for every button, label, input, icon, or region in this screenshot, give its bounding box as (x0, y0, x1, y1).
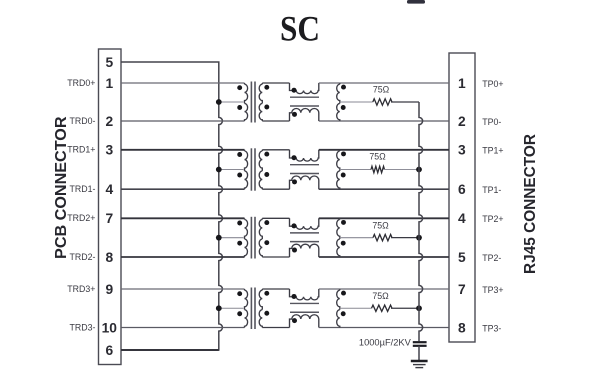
polarity dot T4 primary lower (237, 311, 242, 316)
wire TRD2- pin to transformer T3 (121, 256, 245, 258)
wire secondary top to choke L3 (262, 217, 289, 219)
autotransformer winding channel 0 (337, 83, 340, 121)
polarity dot autotransformer 0 upper (341, 85, 346, 90)
wire choke L2 to RJ45 pin (bottom) (319, 188, 449, 190)
wire TRD3- pin to transformer T4 (121, 327, 245, 329)
svg-text:5: 5 (105, 55, 113, 70)
junction resistor R4 on right bus (416, 305, 422, 311)
polarity dot T1 primary upper (237, 85, 242, 90)
polarity dot choke L3 bottom (292, 248, 297, 253)
choke L1 core (290, 96, 319, 98)
svg-text:TRD1+: TRD1+ (67, 145, 95, 155)
polarity dot T3 primary lower (237, 241, 242, 246)
junction center tap T1 on left bus (216, 99, 222, 105)
wire secondary top to choke L1 (262, 82, 289, 84)
svg-text:TRD3-: TRD3- (69, 322, 95, 332)
transformer T3 secondary winding (259, 218, 262, 257)
polarity dot T1 secondary upper (264, 85, 269, 90)
wire autotransformer center tap to resistor R1 (340, 101, 373, 103)
capacitor C1 1000uF/2KV plate top (413, 341, 427, 343)
svg-text:TRD0-: TRD0- (69, 116, 95, 126)
wire choke L3 to RJ45 pin (top) (319, 217, 449, 219)
PCB connector J1 body (99, 49, 122, 365)
transformer T2 secondary winding (259, 150, 262, 189)
polarity dot choke L2 bottom (292, 179, 297, 184)
svg-text:TP1-: TP1- (482, 185, 501, 195)
svg-text:RJ45 CONNECTOR: RJ45 CONNECTOR (522, 134, 539, 274)
common-mode choke L3 bottom winding (290, 244, 319, 257)
transformer T1 core (250, 82, 252, 123)
svg-text:6: 6 (458, 182, 466, 197)
polarity dot T2 primary upper (237, 152, 242, 157)
wire pin6 (left, bottom return) (121, 349, 219, 351)
polarity dot autotransformer 1 upper (341, 151, 346, 156)
transformer T4 secondary winding (259, 289, 262, 328)
wire primary center tap T4 (219, 307, 244, 309)
autotransformer winding channel 2 (337, 218, 340, 257)
wire resistor R2 to right bus (384, 169, 420, 171)
svg-text:TRD2-: TRD2- (69, 252, 95, 262)
svg-text:3: 3 (105, 143, 113, 158)
svg-text:TP3+: TP3+ (482, 285, 503, 295)
common-mode choke L2 bottom winding (290, 176, 319, 189)
transformer T4 core (250, 288, 252, 330)
wire autotransformer center tap to resistor R4 (340, 307, 372, 309)
svg-text:TRD0+: TRD0+ (67, 78, 95, 88)
wire TRD1- pin to transformer T2 (121, 188, 245, 190)
svg-text:1: 1 (105, 76, 113, 91)
svg-text:7: 7 (458, 282, 466, 297)
polarity dot autotransformer 1 lower (341, 173, 346, 178)
wire choke L1 to RJ45 pin (top) (319, 82, 449, 84)
svg-text:PCB CONNECTOR: PCB CONNECTOR (53, 116, 70, 259)
junction center tap T3 on left bus (216, 235, 222, 241)
polarity dot autotransformer 2 lower (341, 241, 346, 246)
polarity dot choke L1 top (292, 88, 297, 93)
svg-text:75Ω: 75Ω (372, 220, 389, 230)
junction center tap T4 on left bus (216, 305, 222, 311)
svg-text:4: 4 (458, 211, 466, 226)
polarity dot choke L2 top (292, 155, 297, 160)
wire choke L3 to RJ45 pin (bottom) (319, 256, 449, 258)
svg-text:TP3-: TP3- (482, 323, 501, 333)
autotransformer winding channel 3 (337, 289, 340, 328)
svg-text:2: 2 (105, 114, 113, 129)
wire secondary bottom to choke L1 (262, 120, 289, 122)
page artifact mark top (407, 0, 425, 4)
resistor R3 75 ohm (373, 234, 392, 240)
transformer T2 core (250, 148, 252, 190)
wire choke L2 to RJ45 pin (top) (319, 149, 449, 151)
svg-text:75Ω: 75Ω (373, 85, 390, 95)
wire resistor R4 to right bus (391, 307, 419, 309)
svg-text:TRD2+: TRD2+ (67, 213, 95, 223)
svg-text:10: 10 (102, 320, 118, 335)
common-mode choke L4 bottom winding (290, 315, 319, 328)
svg-text:75Ω: 75Ω (369, 151, 386, 161)
polarity dot choke L3 top (292, 223, 297, 228)
svg-text:TP0-: TP0- (482, 117, 501, 127)
svg-text:TP0+: TP0+ (482, 79, 503, 89)
svg-text:8: 8 (105, 250, 113, 265)
wire primary center tap T2 (219, 169, 244, 171)
wire choke L4 to RJ45 pin (bottom) (319, 327, 449, 329)
wire autotransformer center tap to resistor R3 (340, 237, 373, 239)
svg-text:75Ω: 75Ω (372, 291, 389, 301)
svg-text:TP2+: TP2+ (482, 214, 503, 224)
wire primary center tap T3 (219, 237, 244, 239)
svg-text:9: 9 (105, 282, 113, 297)
choke L2 core (290, 164, 319, 166)
svg-text:3: 3 (458, 143, 466, 158)
wire secondary bottom to choke L4 (262, 327, 289, 329)
wire TRD0- pin to transformer T1 (121, 120, 245, 122)
polarity dot T3 primary upper (237, 221, 242, 226)
ground symbol (411, 360, 428, 362)
svg-text:TRD1-: TRD1- (69, 184, 95, 194)
polarity dot T2 secondary lower (264, 172, 269, 177)
wire secondary top to choke L4 (262, 288, 289, 290)
wire capacitor to ground (418, 346, 420, 360)
common-mode choke L1 bottom winding (290, 109, 319, 122)
svg-text:TP1+: TP1+ (482, 146, 503, 156)
wire pin5 / center-tap bus (left) (121, 62, 222, 350)
svg-text:2: 2 (458, 114, 466, 129)
polarity dot T4 secondary upper (264, 291, 269, 296)
wire secondary top to choke L2 (262, 149, 289, 151)
transformer T3 primary winding (245, 218, 248, 257)
polarity dot T4 secondary lower (264, 311, 269, 316)
polarity dot autotransformer 3 lower (341, 311, 346, 316)
svg-text:TRD3+: TRD3+ (67, 284, 95, 294)
termination bus wire (right, to capacitor) (419, 102, 423, 341)
svg-text:4: 4 (105, 182, 113, 197)
resistor R2 75 ohm (371, 166, 384, 172)
choke L4 core (290, 302, 319, 304)
polarity dot T3 secondary lower (264, 240, 269, 245)
wire resistor R1 to right bus (391, 101, 419, 103)
svg-text:1000µF/2KV: 1000µF/2KV (359, 338, 412, 348)
wire TRD1+ pin to transformer T2 (121, 149, 245, 151)
polarity dot T2 secondary upper (264, 152, 269, 157)
svg-text:SC: SC (280, 9, 320, 49)
polarity dot choke L1 bottom (292, 112, 297, 117)
wire secondary bottom to choke L2 (262, 188, 289, 190)
resistor R4 75 ohm (372, 305, 392, 311)
junction resistor R2 on right bus (416, 167, 422, 173)
wire TRD2+ pin to transformer T3 (121, 217, 245, 219)
common-mode choke L2 top winding (290, 150, 319, 161)
resistor R1 75 ohm (373, 99, 392, 105)
polarity dot autotransformer 3 upper (341, 291, 346, 296)
common-mode choke L4 top winding (290, 289, 319, 300)
transformer T4 primary winding (245, 289, 248, 328)
wire primary center tap T1 (219, 101, 244, 103)
transformer T1 secondary winding (259, 83, 262, 121)
common-mode choke L1 top winding (290, 83, 319, 94)
svg-text:8: 8 (458, 320, 466, 335)
transformer T1 primary winding (245, 83, 248, 121)
svg-text:5: 5 (458, 250, 466, 265)
svg-text:TP2-: TP2- (482, 253, 501, 263)
polarity dot autotransformer 0 lower (341, 105, 346, 110)
wire choke L1 to RJ45 pin (bottom) (319, 120, 449, 122)
wire secondary bottom to choke L3 (262, 256, 289, 258)
wire resistor R3 to right bus (391, 237, 419, 239)
polarity dot T1 secondary lower (264, 105, 269, 110)
wire TRD0+ pin to transformer T1 (121, 82, 245, 84)
wire choke L4 to RJ45 pin (top) (319, 288, 449, 290)
polarity dot T1 primary lower (237, 105, 242, 110)
polarity dot choke L4 bottom (292, 318, 297, 323)
transformer T3 core (250, 217, 252, 259)
polarity dot choke L4 top (292, 294, 297, 299)
polarity dot T4 primary upper (237, 291, 242, 296)
wire TRD3+ pin to transformer T4 (121, 288, 245, 290)
capacitor C1 plate bottom (413, 345, 427, 347)
autotransformer winding channel 1 (337, 150, 340, 189)
polarity dot T2 primary lower (237, 173, 242, 178)
polarity dot autotransformer 2 upper (341, 220, 346, 225)
junction resistor R3 on right bus (416, 235, 422, 241)
RJ45 connector body (449, 53, 475, 342)
polarity dot T3 secondary upper (264, 220, 269, 225)
svg-text:7: 7 (105, 211, 113, 226)
choke L3 core (290, 232, 319, 234)
svg-text:6: 6 (105, 343, 113, 358)
svg-text:1: 1 (458, 76, 466, 91)
transformer T2 primary winding (245, 150, 248, 189)
common-mode choke L3 top winding (290, 218, 319, 229)
junction center tap T2 on left bus (216, 167, 222, 173)
wire autotransformer center tap to resistor R2 (340, 169, 371, 171)
